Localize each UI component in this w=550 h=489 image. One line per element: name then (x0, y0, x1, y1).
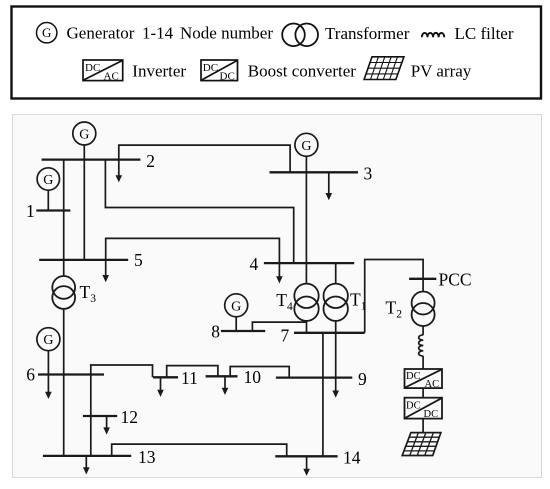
svg-text:G: G (231, 299, 241, 314)
load arrow bus 10 (222, 376, 229, 395)
svg-text:G: G (79, 128, 89, 143)
wire G1 to bus 1 (47, 190, 49, 210)
wire bus6 to bus13 (90, 375, 92, 456)
wire G2 to bus 5 (83, 145, 85, 260)
wire bus4 to T1 (335, 263, 337, 284)
generator G at bus 8 (225, 294, 248, 317)
load arrow bus 12 (103, 416, 110, 435)
load arrow bus 13 (83, 456, 90, 475)
bus 13 (43, 455, 131, 457)
svg-text:14: 14 (343, 447, 361, 467)
wire T2 to LC filter (422, 326, 424, 335)
transformer legend symbol (282, 24, 318, 47)
PCC bus (409, 278, 436, 280)
load arrow bus 14 (303, 456, 310, 476)
wire T1 to bus 7 (335, 321, 337, 333)
wire branch 11-10 (167, 366, 218, 378)
svg-text:8: 8 (211, 322, 220, 342)
load arrow bus 11 (157, 377, 164, 397)
svg-text:5: 5 (134, 250, 143, 270)
wire G6 to bus 6 (47, 351, 49, 375)
load arrow bus 4 (276, 263, 283, 283)
transformer T3 (52, 276, 75, 309)
wire LC filter to inverter (422, 356, 424, 369)
svg-text:Boost converter: Boost converter (248, 61, 356, 80)
load arrow bus 3 (326, 172, 333, 200)
inverter U1 DC/AC (405, 369, 443, 390)
svg-text:6: 6 (26, 365, 35, 385)
wire G8 to bus 8 (235, 317, 237, 331)
svg-text:LC filter: LC filter (455, 24, 514, 43)
svg-text:Transformer: Transformer (325, 24, 410, 43)
svg-text:4: 4 (250, 254, 259, 274)
PV array (402, 433, 441, 456)
svg-text:AC: AC (425, 379, 440, 390)
bus 11 (153, 376, 178, 378)
load arrow bus 5 (102, 260, 109, 282)
svg-text:AC: AC (104, 70, 119, 82)
svg-text:13: 13 (138, 447, 156, 467)
svg-text:DC: DC (424, 409, 439, 420)
bus 1 (36, 209, 70, 211)
svg-text:10: 10 (244, 367, 262, 387)
boost converter U2 DC/DC (405, 398, 443, 420)
wire G3 through bus3 bus4 to T4 (305, 156, 307, 283)
bus 9 (276, 376, 352, 378)
wire branch 2-4 (105, 160, 293, 264)
transformer T2 (412, 292, 435, 327)
svg-text:9: 9 (358, 369, 367, 389)
svg-text:G: G (43, 333, 53, 348)
svg-text:DC: DC (406, 371, 421, 382)
svg-text:G: G (301, 139, 311, 154)
svg-text:Generator: Generator (67, 23, 135, 42)
LC filter legend symbol (422, 33, 444, 37)
svg-text:DC: DC (203, 62, 218, 74)
transformer T1 (324, 284, 348, 321)
svg-text:G: G (43, 173, 53, 188)
generator G at bus 6 (37, 328, 60, 351)
generator G at bus 2 (73, 122, 96, 145)
svg-text:PCC: PCC (439, 269, 472, 289)
wire branch 13-14 (112, 444, 287, 456)
transformer T4 (294, 284, 318, 321)
wire branch 5-4 (106, 238, 280, 263)
LC filter coil (419, 335, 424, 356)
bus 12 (83, 415, 117, 417)
wire T4 to bus 7 (306, 321, 308, 333)
wire branch 6-11 (91, 365, 153, 377)
bus 7 (294, 332, 365, 334)
wire branch 7-PCC (365, 260, 423, 333)
svg-text:Node number: Node number (180, 23, 273, 42)
bus 6 (38, 373, 104, 375)
generator G at bus 1 (37, 168, 59, 190)
generator legend symbol (37, 23, 57, 43)
bus 8 (221, 330, 265, 332)
legend frame (12, 7, 542, 99)
inverter legend symbol (83, 60, 123, 82)
svg-text:1-14: 1-14 (142, 23, 174, 42)
wire bus2 to T3 top (63, 160, 65, 276)
main diagram frame (13, 115, 542, 478)
svg-text:DC: DC (85, 62, 100, 74)
svg-text:1: 1 (26, 201, 35, 221)
svg-text:2: 2 (146, 151, 155, 171)
svg-text:7: 7 (281, 326, 290, 346)
wire branch 8-7 (252, 322, 306, 331)
svg-text:Inverter: Inverter (132, 61, 186, 80)
svg-text:12: 12 (121, 407, 139, 427)
svg-text:DC: DC (406, 401, 421, 412)
svg-text:DC: DC (220, 70, 235, 82)
bus 3 (270, 171, 359, 173)
boost converter legend symbol (201, 60, 238, 82)
svg-text:PV array: PV array (411, 61, 472, 80)
bus 10 (206, 375, 238, 377)
PV array legend symbol (364, 57, 404, 80)
wire inverter to boost converter (422, 388, 424, 398)
svg-text:11: 11 (181, 368, 198, 388)
bus 14 (275, 455, 337, 457)
generator G at bus 3 (295, 133, 318, 156)
bus 5 (39, 259, 128, 261)
load arrow bus 6 (45, 375, 52, 400)
wire boost converter to PV array (422, 419, 424, 433)
svg-text:G: G (42, 25, 51, 40)
wire T3 bottom to bus 13 (63, 309, 65, 456)
wire branch 7-14 (322, 333, 324, 457)
svg-text:3: 3 (364, 163, 373, 183)
wire branch 2-3 (119, 145, 290, 172)
bus 2 (42, 158, 141, 160)
wire branch 10-9 (230, 367, 289, 378)
load arrow bus 2 (116, 160, 123, 183)
load arrow below bus 7 crossing bus 9 (332, 333, 339, 398)
bus 4 (264, 262, 354, 264)
